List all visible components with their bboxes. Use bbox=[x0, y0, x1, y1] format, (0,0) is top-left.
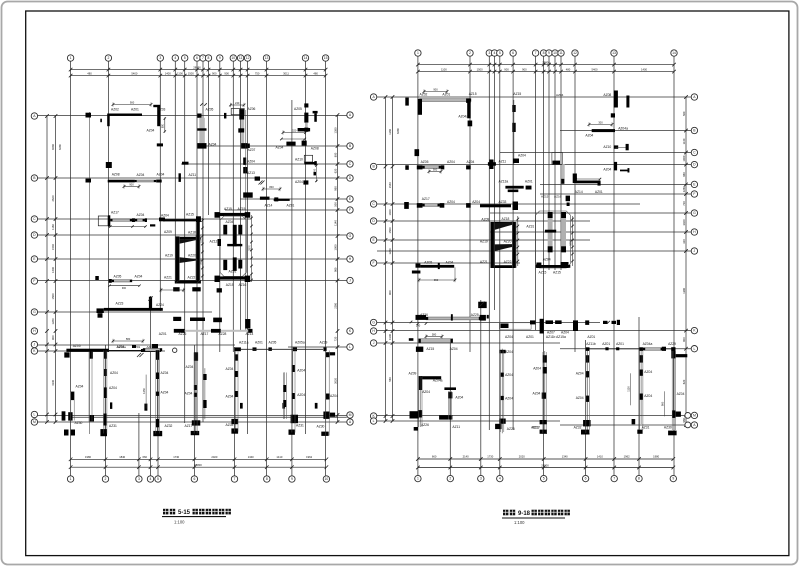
svg-text:8: 8 bbox=[266, 477, 268, 481]
svg-text:3: 3 bbox=[138, 477, 140, 481]
wall bar y130 bbox=[592, 129, 615, 132]
svg-text:AZ04: AZ04 bbox=[518, 154, 526, 158]
svg-text:4: 4 bbox=[150, 477, 152, 481]
dark node y199 bbox=[274, 197, 278, 201]
svg-text:AZ04: AZ04 bbox=[186, 365, 194, 369]
svg-text:AZ11: AZ11 bbox=[189, 173, 197, 177]
svg-text:660: 660 bbox=[432, 455, 437, 459]
elevator shaded wall a (right plan) bbox=[548, 212, 553, 252]
svg-text:960: 960 bbox=[333, 186, 337, 191]
svg-text:900: 900 bbox=[51, 335, 55, 340]
svg-text:AZ04: AZ04 bbox=[505, 335, 513, 339]
svg-text:G: G bbox=[349, 234, 352, 238]
wall AZ08 vertical (right plan) bbox=[614, 91, 618, 108]
wall x545 column bbox=[543, 355, 547, 362]
wall row y348 piers bbox=[235, 347, 241, 351]
svg-text:2620: 2620 bbox=[51, 195, 55, 201]
grid line y=146 bbox=[200, 145, 347, 147]
svg-text:5: 5 bbox=[184, 56, 186, 60]
svg-text:2: 2 bbox=[105, 477, 107, 481]
wall AZ23 left end bbox=[97, 308, 104, 313]
grid line y=235 bbox=[38, 234, 347, 236]
left pier y312 bbox=[98, 313, 103, 318]
svg-text:1800: 1800 bbox=[569, 240, 572, 246]
svg-text:960: 960 bbox=[682, 172, 686, 177]
svg-text:AZ04: AZ04 bbox=[603, 168, 611, 172]
wall x236 top bbox=[235, 354, 239, 360]
elevator left edge mid node bbox=[218, 239, 222, 246]
cross node x260 y182 bbox=[259, 181, 263, 185]
svg-text:AZ01: AZ01 bbox=[287, 204, 295, 208]
svg-text:480: 480 bbox=[566, 67, 571, 71]
svg-text:M: M bbox=[693, 414, 696, 418]
svg-text:AZ04: AZ04 bbox=[137, 213, 145, 217]
wall AZ17b below bbox=[191, 431, 200, 435]
stair core bottom bar (right plan) bbox=[491, 265, 516, 268]
grid line y=422 bbox=[38, 421, 347, 423]
grid line y=164.6 bbox=[377, 164, 691, 166]
svg-text:AZ04: AZ04 bbox=[505, 396, 513, 400]
svg-text:1730: 1730 bbox=[487, 455, 493, 459]
svg-text:AZ28: AZ28 bbox=[219, 332, 227, 336]
svg-text:1380: 1380 bbox=[333, 127, 337, 133]
grid line x=105.5 bbox=[105, 345, 107, 476]
svg-text:1410: 1410 bbox=[276, 455, 282, 459]
svg-text:1000: 1000 bbox=[682, 155, 686, 161]
svg-text:28800: 28800 bbox=[194, 463, 202, 467]
grid line x=417.9 bbox=[417, 57, 419, 476]
dark end y166 bbox=[441, 165, 444, 169]
elevator center wall low bbox=[233, 257, 237, 271]
svg-text:AZ04a: AZ04a bbox=[643, 342, 653, 346]
wall AZ04 x71 bbox=[71, 392, 75, 401]
svg-text:10: 10 bbox=[231, 56, 235, 60]
wall x242 shaded lower bbox=[241, 133, 244, 144]
bar x159 y218 bbox=[159, 218, 165, 222]
tee bar right of AZ05b bbox=[313, 111, 318, 114]
svg-text:AZ05a: AZ05a bbox=[295, 340, 305, 344]
svg-text:AZ01: AZ01 bbox=[526, 335, 534, 339]
svg-text:300: 300 bbox=[598, 120, 603, 124]
svg-text:1540: 1540 bbox=[388, 182, 392, 188]
svg-text:AZ09: AZ09 bbox=[164, 230, 172, 234]
dim slashes right of elevator (right plan) bbox=[572, 216, 574, 266]
grid line x=614.0 bbox=[613, 57, 615, 476]
svg-text:AZ04: AZ04 bbox=[117, 345, 125, 349]
left plan top axis bubbles bbox=[67, 55, 73, 61]
wall corner y166 bbox=[466, 165, 471, 169]
svg-text:800: 800 bbox=[682, 337, 686, 342]
wall stub lower bbox=[255, 177, 260, 181]
dim stub x146 bbox=[145, 375, 147, 409]
wall AZ04 x236 mid bbox=[235, 371, 239, 377]
wall x449 b bbox=[448, 415, 452, 419]
svg-text:7: 7 bbox=[234, 477, 236, 481]
svg-text:AZ04: AZ04 bbox=[226, 395, 234, 399]
svg-text:AZ15: AZ15 bbox=[553, 271, 561, 275]
wall x293 mid bbox=[292, 365, 295, 372]
svg-text:1160: 1160 bbox=[388, 128, 392, 134]
wall row y219 shaded b bbox=[135, 219, 145, 221]
wall dim above R5 top bar bbox=[426, 336, 442, 338]
grid line x=138.9 bbox=[138, 413, 140, 476]
dark end y205 bbox=[440, 203, 445, 208]
svg-text:1560: 1560 bbox=[388, 227, 392, 233]
svg-text:AZ01: AZ01 bbox=[525, 180, 533, 184]
wall AZ31 vertical bbox=[103, 414, 106, 426]
svg-text:1280: 1280 bbox=[388, 248, 392, 254]
wall AZ08 row segment a bbox=[108, 180, 135, 183]
svg-text:500: 500 bbox=[333, 202, 337, 207]
svg-text:G: G bbox=[693, 211, 696, 215]
svg-text:660: 660 bbox=[142, 455, 147, 459]
svg-text:AZ01: AZ01 bbox=[616, 342, 624, 346]
svg-text:2260: 2260 bbox=[333, 302, 337, 308]
svg-text:AZ01: AZ01 bbox=[159, 332, 167, 336]
svg-text:880: 880 bbox=[162, 123, 165, 128]
svg-text:AZ04: AZ04 bbox=[109, 386, 117, 390]
svg-text:AZ04: AZ04 bbox=[446, 261, 454, 265]
wall bottom row y205 node bbox=[417, 203, 423, 208]
wall AZ03 corner L bbox=[153, 105, 160, 107]
wall edge double lines right plan bottom band bbox=[542, 352, 544, 433]
svg-text:AZ05: AZ05 bbox=[269, 340, 277, 344]
svg-text:AZ04: AZ04 bbox=[576, 396, 584, 400]
svg-text:AZ15: AZ15 bbox=[224, 207, 232, 211]
right plan top dimension chain lines bbox=[418, 64, 674, 66]
svg-text:7: 7 bbox=[535, 51, 537, 55]
svg-text:AZ04: AZ04 bbox=[561, 331, 569, 335]
dark node left y266 bbox=[416, 264, 421, 268]
grid line x=184.7 bbox=[184, 62, 186, 424]
grid thin wall line x245.8 bbox=[245, 110, 247, 330]
wall dim y289 stubs bbox=[161, 289, 184, 291]
svg-text:1962: 1962 bbox=[306, 455, 312, 459]
svg-text:13: 13 bbox=[265, 56, 269, 60]
wall x420 dark low bbox=[418, 410, 422, 417]
svg-text:9: 9 bbox=[291, 477, 293, 481]
svg-text:800: 800 bbox=[333, 152, 337, 157]
grid line y=415.4 bbox=[377, 414, 691, 416]
wall dim near AZ14 bbox=[263, 188, 280, 190]
svg-text:AZ04: AZ04 bbox=[543, 258, 551, 262]
grid line x=234.5 bbox=[234, 347, 236, 476]
marker near AZ11 bbox=[182, 162, 189, 165]
svg-text:AZ04: AZ04 bbox=[157, 173, 165, 177]
svg-text:720: 720 bbox=[682, 201, 686, 206]
svg-text:1140: 1140 bbox=[682, 138, 686, 144]
svg-text:1: 1 bbox=[417, 477, 419, 481]
dark bar y205 x480-511 bbox=[480, 204, 511, 207]
svg-text:6: 6 bbox=[196, 56, 198, 60]
grid line x=247.6 bbox=[247, 62, 249, 435]
svg-text:AZ30: AZ30 bbox=[664, 426, 672, 430]
svg-text:800: 800 bbox=[312, 168, 316, 173]
grid line y=343 bbox=[377, 342, 560, 344]
wall x242 shaded upper bbox=[241, 120, 244, 131]
dim stub right of AZ03 bbox=[164, 118, 166, 133]
wall vertical left of AZ14 bbox=[573, 174, 577, 184]
cross node y305 bbox=[478, 302, 487, 308]
svg-text:1000: 1000 bbox=[333, 244, 337, 250]
ticks y388 bbox=[444, 387, 456, 390]
svg-text:AZ11b: AZ11b bbox=[586, 342, 596, 346]
elevator right dim column bbox=[251, 215, 253, 282]
grid line y=263 bbox=[377, 262, 520, 264]
svg-text:J: J bbox=[349, 279, 351, 283]
wall AZ04a stub bbox=[468, 121, 473, 127]
svg-text:1280: 1280 bbox=[51, 318, 55, 324]
svg-text:1160: 1160 bbox=[51, 224, 55, 230]
svg-text:AZ17: AZ17 bbox=[422, 197, 430, 201]
grid line y=204 bbox=[377, 203, 640, 205]
bar y322 right bbox=[603, 321, 608, 324]
wall AZ30b below bbox=[321, 432, 328, 436]
wall AZ15 end bbox=[196, 216, 201, 222]
svg-text:1: 1 bbox=[417, 51, 419, 55]
svg-text:AZ05: AZ05 bbox=[294, 107, 302, 111]
grid line y=130.5 bbox=[560, 130, 691, 132]
core wall x197 upper bbox=[197, 222, 200, 237]
svg-text:AZ04: AZ04 bbox=[644, 370, 652, 374]
wall AZ06 below jamb bbox=[239, 115, 244, 120]
svg-text:AZ04: AZ04 bbox=[505, 373, 513, 377]
svg-text:AZ15: AZ15 bbox=[541, 195, 549, 199]
svg-text:3011: 3011 bbox=[283, 71, 289, 75]
svg-text:1500: 1500 bbox=[477, 67, 483, 71]
svg-text:6: 6 bbox=[512, 51, 514, 55]
grid line y=251 bbox=[377, 250, 691, 252]
wall AZ07 node bbox=[241, 143, 247, 149]
dim stub x665 bbox=[664, 391, 666, 416]
svg-text:AZ05: AZ05 bbox=[206, 108, 214, 112]
svg-text:AZ10: AZ10 bbox=[603, 145, 611, 149]
cross node below y351 bbox=[137, 353, 141, 357]
svg-text:1340: 1340 bbox=[248, 455, 254, 459]
svg-text:620: 620 bbox=[333, 168, 337, 173]
svg-text:AZ04: AZ04 bbox=[533, 392, 541, 396]
wall AZ30 corner blob bbox=[68, 412, 72, 420]
grid line y=164 bbox=[181, 163, 347, 165]
stair core right wall AZ18/AZ20/AZ22 bbox=[196, 235, 200, 282]
grid line x=305.5 bbox=[305, 62, 307, 435]
wall AZ24 vertical bbox=[149, 297, 152, 311]
stair bottom bar bbox=[175, 280, 201, 283]
grid line x=233.3 bbox=[232, 62, 234, 353]
grid line y=194 bbox=[540, 193, 691, 195]
svg-text:2260: 2260 bbox=[682, 186, 686, 192]
right plan bottom dimension chain lines bbox=[418, 458, 673, 460]
svg-text:AZ01: AZ01 bbox=[587, 335, 595, 339]
svg-text:320: 320 bbox=[682, 239, 686, 244]
svg-text:AZ09: AZ09 bbox=[409, 372, 417, 376]
wall corner y205 bbox=[466, 203, 471, 208]
left plan right axis bubbles bbox=[347, 112, 353, 118]
svg-text:AZ04a: AZ04a bbox=[618, 127, 628, 131]
svg-text:AZ16: AZ16 bbox=[239, 283, 247, 287]
svg-text:3: 3 bbox=[480, 477, 482, 481]
svg-text:1730: 1730 bbox=[173, 455, 179, 459]
svg-text:AZ11: AZ11 bbox=[499, 160, 507, 164]
svg-text:3: 3 bbox=[159, 56, 161, 60]
grid line y=232 bbox=[490, 231, 691, 233]
svg-text:900: 900 bbox=[130, 100, 135, 104]
grid line x=639.0 bbox=[638, 317, 640, 475]
left plan left dimension chain lines bbox=[46, 116, 48, 422]
wall AZ14/AZ01 bar y181 bbox=[576, 181, 601, 184]
svg-text:7: 7 bbox=[613, 477, 615, 481]
svg-text:AZ26: AZ26 bbox=[179, 332, 187, 336]
dim stub x630 bbox=[630, 373, 632, 405]
svg-text:14: 14 bbox=[672, 51, 676, 55]
svg-text:900: 900 bbox=[504, 67, 509, 71]
svg-text:8: 8 bbox=[543, 51, 545, 55]
stair flight taper upper bbox=[179, 240, 197, 244]
svg-text:J: J bbox=[373, 341, 375, 345]
svg-text:1962: 1962 bbox=[624, 455, 630, 459]
svg-text:AZ24: AZ24 bbox=[156, 303, 164, 307]
cluster x513 y202 bbox=[513, 202, 519, 211]
elevator mid bar bbox=[227, 244, 242, 246]
svg-text:AZ04: AZ04 bbox=[585, 134, 593, 138]
dark right end y187 bbox=[526, 186, 532, 190]
svg-text:L: L bbox=[33, 413, 35, 417]
wall AZ17 thick jamb bbox=[108, 215, 110, 226]
svg-text:6: 6 bbox=[193, 477, 195, 481]
stair core left wall (right plan) bbox=[490, 222, 494, 268]
wall AZ05 shaded vertical bbox=[199, 118, 205, 143]
left edge pier 2 bbox=[106, 162, 112, 168]
svg-text:5: 5 bbox=[499, 51, 501, 55]
svg-text:AZ14: AZ14 bbox=[246, 332, 254, 336]
wall AZ32 blob below bbox=[153, 431, 162, 436]
wall x587 column bbox=[586, 355, 590, 362]
grid line x=175.3 bbox=[174, 62, 176, 283]
wall AZ04 x195 bbox=[194, 393, 197, 397]
svg-text:AZ31: AZ31 bbox=[296, 424, 304, 428]
svg-text:9-18: 9-18 bbox=[518, 511, 531, 517]
svg-text:1980: 1980 bbox=[653, 455, 659, 459]
grid line y=322.5 bbox=[377, 322, 600, 324]
wall x615 lower bbox=[614, 162, 617, 171]
wall AZ05b vertical dark bbox=[304, 113, 308, 123]
grid line y=199 bbox=[240, 198, 347, 200]
stub x314 y173 bbox=[314, 172, 317, 175]
svg-text:13: 13 bbox=[612, 51, 616, 55]
elevator top wall bar bbox=[219, 213, 249, 216]
svg-text:AZ04: AZ04 bbox=[576, 372, 584, 376]
svg-text:AZ14: AZ14 bbox=[575, 190, 583, 194]
svg-text:5400: 5400 bbox=[592, 67, 598, 71]
grid line x=70.6 bbox=[70, 62, 72, 476]
svg-text:6: 6 bbox=[585, 477, 587, 481]
wall AZ17 door frame box bbox=[98, 216, 108, 226]
svg-text:AZ18: AZ18 bbox=[188, 231, 196, 235]
svg-text:AZ30: AZ30 bbox=[75, 421, 83, 425]
grid line x=489.3 bbox=[488, 57, 490, 431]
svg-text:AZ15: AZ15 bbox=[238, 207, 246, 211]
svg-text:J: J bbox=[34, 343, 36, 347]
wall AZ05 crossbar bbox=[197, 128, 206, 130]
elevator center wall bbox=[233, 225, 237, 247]
dark left block y317 bbox=[416, 315, 427, 320]
svg-text:AZ04: AZ04 bbox=[226, 367, 234, 371]
dark right end y181 bbox=[598, 181, 601, 185]
svg-text:AZ02: AZ02 bbox=[111, 108, 119, 112]
svg-text:6280: 6280 bbox=[58, 144, 62, 150]
svg-text:10: 10 bbox=[325, 477, 329, 481]
grid line y=97 bbox=[377, 96, 691, 98]
svg-text:AZ02: AZ02 bbox=[420, 93, 428, 97]
svg-text:J: J bbox=[694, 249, 696, 253]
svg-text:AZ15: AZ15 bbox=[426, 347, 434, 351]
stair core left wall AZ09/AZ19/AZ21 bbox=[175, 236, 180, 280]
stair core right wall (right plan) bbox=[512, 222, 516, 268]
svg-text:960: 960 bbox=[660, 401, 664, 406]
big blob x413 bbox=[410, 411, 420, 418]
right plan title bbox=[503, 510, 508, 516]
svg-text:1540: 1540 bbox=[51, 244, 55, 250]
dim slashes above AZ05 bbox=[200, 103, 203, 106]
svg-text:AZ04: AZ04 bbox=[147, 129, 155, 133]
wall AZ01 bar bbox=[274, 199, 290, 201]
wall AZ04 x304 lower bbox=[303, 180, 308, 184]
svg-text:11: 11 bbox=[559, 51, 563, 55]
wall x449 a bbox=[448, 392, 452, 398]
svg-text:AZ25: AZ25 bbox=[471, 313, 479, 317]
svg-text:AZ04: AZ04 bbox=[185, 391, 193, 395]
wall AZ04 x156 low bbox=[156, 392, 160, 396]
core bottom node slashes bbox=[176, 281, 179, 284]
wall AZ23/AZ24 horizontal bbox=[104, 308, 163, 311]
wall dim above AZ04-AZ08 bbox=[283, 132, 306, 134]
svg-text:AZ26: AZ26 bbox=[420, 313, 428, 317]
wall AZ06 dark jamb bbox=[239, 109, 244, 115]
wall AZ26/AZ25 long bar y319 bbox=[426, 317, 481, 320]
svg-text:AZ32: AZ32 bbox=[165, 424, 173, 428]
wall dim above right plan top wall bbox=[424, 91, 447, 93]
wall x242 node mid bbox=[238, 128, 244, 132]
svg-text:1: 1 bbox=[70, 477, 72, 481]
svg-text:4100: 4100 bbox=[388, 334, 392, 340]
svg-text:9: 9 bbox=[548, 51, 550, 55]
vertical drop x454 bbox=[454, 267, 456, 281]
grid line y=210 bbox=[225, 209, 347, 211]
left edge pier bbox=[86, 113, 92, 118]
left edge pier y279 bbox=[95, 276, 99, 280]
svg-text:8: 8 bbox=[208, 56, 210, 60]
svg-text:AZ31: AZ31 bbox=[109, 424, 117, 428]
wall vertical x420 bbox=[419, 376, 423, 390]
elevator bottom wall (right plan) bbox=[536, 265, 571, 268]
svg-text:AZ23: AZ23 bbox=[116, 302, 124, 306]
svg-text:960: 960 bbox=[682, 417, 686, 422]
box outline x552 y153 bbox=[552, 153, 563, 165]
svg-text:AZ04: AZ04 bbox=[135, 275, 143, 279]
svg-text:M: M bbox=[33, 420, 36, 424]
svg-text:AZ05: AZ05 bbox=[114, 275, 122, 279]
grid line x=291.9 bbox=[291, 100, 293, 476]
svg-text:AZ12: AZ12 bbox=[210, 240, 218, 244]
svg-text:AZ15: AZ15 bbox=[469, 92, 477, 96]
svg-text:AZ08: AZ08 bbox=[603, 93, 611, 97]
svg-text:1: 1 bbox=[70, 56, 72, 60]
wall x204 segs bbox=[204, 368, 206, 419]
grid line x=219.8 bbox=[219, 62, 221, 353]
wall second row y190 bbox=[508, 190, 519, 193]
wall dim below AZ08 row bbox=[124, 186, 139, 188]
pier y152 bbox=[415, 149, 420, 156]
